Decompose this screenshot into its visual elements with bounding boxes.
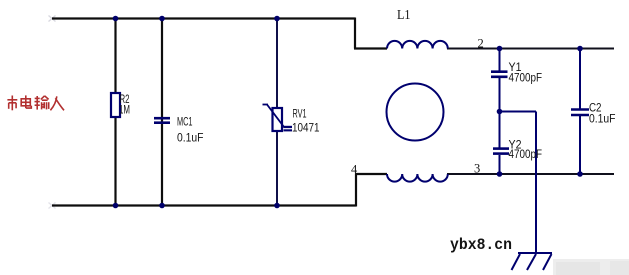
capacitor C2 [571, 101, 616, 126]
wire end marker top-left [49, 16, 56, 22]
char dian [25, 95, 27, 108]
node junction Y1-Y2 [497, 109, 503, 115]
inductor L1 upper winding [387, 41, 448, 49]
wire C2 vertical bottom [579, 116, 581, 174]
svg-text:2: 2 [478, 37, 484, 51]
label mains input (red CJK, hand-drawn) [7, 95, 64, 110]
wire upper link to L1 [354, 47, 387, 49]
svg-text:RV1: RV1 [293, 107, 307, 121]
node junction MC1 bottom [159, 203, 165, 209]
wire node 3 line [447, 173, 614, 175]
capacitor Y1 [491, 60, 542, 85]
char shi [11, 96, 13, 100]
node junction MC1 top [159, 16, 165, 22]
watermark gray box bottom-right [553, 259, 629, 275]
varistor RV1 [263, 105, 320, 135]
svg-text:3: 3 [474, 162, 480, 176]
wire Y2 vertical bottom [499, 155, 501, 174]
wire Y1 vertical bottom [499, 78, 501, 112]
wire RV1 vertical [276, 19, 278, 206]
svg-text:4700pF: 4700pF [509, 71, 543, 85]
wire R2 vertical [114, 19, 116, 206]
char shu [35, 97, 40, 99]
wire bottom step up [355, 174, 357, 207]
node junction 3-C2 [577, 171, 583, 177]
svg-text:10471: 10471 [292, 121, 320, 135]
node junction 3-Y2 [497, 171, 503, 177]
wire bottom rail [52, 204, 356, 206]
svg-text:L1: L1 [397, 8, 411, 23]
inductor L1 lower winding [387, 174, 448, 182]
wire node 2 line [447, 48, 614, 50]
wire C2 vertical top [579, 49, 581, 110]
node junction RV1 bottom [274, 203, 280, 209]
svg-text:0.1uF: 0.1uF [177, 131, 204, 145]
char ru [50, 96, 56, 110]
wire Y1 vertical top [499, 49, 501, 71]
ground [512, 253, 553, 270]
node junction 2-Y1 [497, 46, 503, 52]
svg-text:4700pF: 4700pF [509, 147, 543, 161]
resistor R2 [111, 92, 130, 117]
svg-text:ybx8.cn: ybx8.cn [450, 236, 512, 254]
svg-text:MC1: MC1 [177, 115, 193, 129]
wire mid to ground horizontal [500, 111, 537, 113]
wire top step down [354, 18, 356, 49]
wire ground vertical [535, 112, 537, 254]
node junction R2 bottom [113, 203, 119, 209]
node junction R2 top [113, 16, 119, 22]
svg-text:4: 4 [351, 163, 358, 177]
capacitor Y2 [493, 138, 542, 162]
node junction 2-C2 [577, 46, 583, 52]
svg-text:0.1uF: 0.1uF [589, 112, 616, 126]
wire MC1 vertical [161, 19, 163, 206]
wire end marker bottom-left [49, 203, 56, 209]
motor circle [387, 84, 444, 141]
svg-text:1M: 1M [119, 103, 130, 117]
node junction RV1 top [274, 16, 280, 22]
capacitor MC1 [154, 115, 204, 145]
wire lower link to L1 [355, 173, 387, 175]
wire Y2 vertical top [499, 112, 501, 149]
wire top rail [52, 17, 355, 19]
